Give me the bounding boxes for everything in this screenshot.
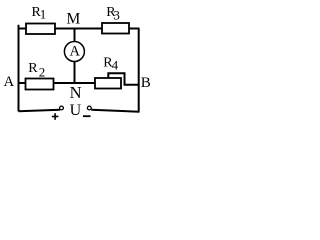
wire: right vertical (B branch) <box>138 29 140 112</box>
wire: left vertical (A branch) <box>18 25 20 112</box>
svg-text:A: A <box>4 74 15 90</box>
terminal circle - <box>87 106 91 110</box>
svg-text:R: R <box>28 61 38 76</box>
svg-text:4: 4 <box>112 57 119 72</box>
wire: top-left lead to R1 <box>18 28 27 30</box>
terminal circle + <box>60 106 64 110</box>
wire: bottom-right from - terminal to corner <box>91 110 139 112</box>
wire: ammeter branch lower stub to N <box>74 62 76 84</box>
wire: R3 to top-right corner <box>129 28 140 30</box>
wire: left vertical to R2 lead <box>18 82 27 84</box>
svg-text:A: A <box>70 43 81 59</box>
svg-text:1: 1 <box>40 7 47 22</box>
rheostat R4 body <box>95 78 121 89</box>
wire: ammeter branch upper stub from M <box>74 29 76 42</box>
ammeter A1 circle <box>64 42 84 62</box>
wire: R2 to R4 through node N <box>54 82 96 84</box>
resistor R1 <box>26 24 55 35</box>
label - <box>83 115 91 117</box>
svg-text:M: M <box>67 11 81 28</box>
wire: R1 to R3 through node M <box>55 28 103 30</box>
rheostat R4 slider tap wire to node B <box>108 73 139 85</box>
svg-text:2: 2 <box>39 64 46 79</box>
resistor R3 <box>102 23 129 34</box>
wire: bottom-left from corner to + terminal <box>19 110 61 112</box>
svg-text:N: N <box>70 83 82 102</box>
label + <box>52 116 59 118</box>
resistor R2 <box>26 79 54 90</box>
svg-text:U: U <box>70 102 82 119</box>
svg-text:B: B <box>141 75 151 91</box>
svg-text:3: 3 <box>113 7 120 22</box>
